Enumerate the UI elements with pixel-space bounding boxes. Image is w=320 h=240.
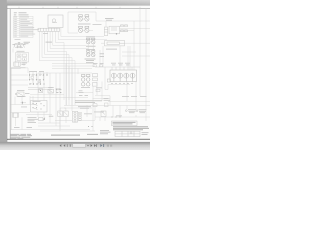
legend table header text bbox=[14, 17, 39, 40]
legend row 7 text bbox=[14, 31, 17, 34]
wires right of heater bbox=[100, 43, 150, 70]
diode symbol w junction bbox=[39, 117, 46, 121]
toolbar next button bbox=[91, 144, 93, 147]
right mid text bbox=[94, 112, 122, 117]
mid-right verticals bbox=[113, 106, 120, 118]
left area tiny text bbox=[18, 95, 26, 98]
main harness connector box bbox=[48, 15, 63, 28]
alternator wires right bbox=[96, 9, 150, 96]
fuse box inner dots bbox=[19, 55, 26, 60]
tail lamp symbol 2 bbox=[136, 110, 138, 112]
dimmer switch links bbox=[56, 88, 60, 92]
heater label bbox=[106, 48, 117, 51]
toolbar first button bbox=[60, 144, 71, 147]
wire code label B bbox=[27, 126, 33, 129]
toolbar page number bbox=[69, 144, 72, 146]
wiper motor label bbox=[81, 86, 90, 89]
title block table bbox=[115, 131, 140, 136]
relay mid cluster bbox=[48, 89, 54, 93]
toolbar last button bbox=[94, 144, 97, 147]
right area wires bbox=[64, 82, 150, 122]
light switch contact row 2 bbox=[29, 79, 30, 80]
legend row 5 text bbox=[14, 26, 17, 29]
ignition block stubs bbox=[95, 67, 140, 70]
vertical connector strip bbox=[72, 111, 77, 122]
drawing frame bottom border bbox=[7, 138, 150, 140]
bottom wire runs bbox=[10, 86, 95, 131]
ignition switch block bbox=[110, 70, 137, 82]
ground bus label bbox=[21, 66, 26, 69]
gauge link wire bbox=[88, 44, 93, 51]
pin column bbox=[79, 112, 82, 120]
junction dot left bbox=[22, 102, 23, 103]
lamp feed wire bbox=[68, 12, 96, 33]
gauge pair 1 caption bbox=[86, 36, 95, 39]
legend table border bbox=[14, 16, 34, 37]
horn component box bbox=[13, 113, 19, 117]
small terminal left of block bbox=[107, 79, 110, 82]
wire dots on bus bbox=[112, 116, 121, 119]
harness fan-out wires bbox=[39, 28, 107, 106]
mid dots pair bbox=[88, 126, 93, 127]
light switch contact links bbox=[28, 72, 52, 89]
relay mid label bbox=[48, 87, 61, 90]
lower cluster label bbox=[78, 106, 91, 108]
legend row 1 text bbox=[14, 18, 17, 21]
toolbar page field bbox=[73, 144, 86, 147]
ignition block labels bbox=[111, 63, 130, 65]
legend row 4 text bbox=[14, 24, 17, 27]
fuse holder dot bbox=[40, 90, 41, 91]
fuel sender label bbox=[105, 18, 114, 20]
wiper motor pair bbox=[81, 75, 90, 87]
toolbar prev button bbox=[63, 144, 65, 147]
tail lamp symbol 1 bbox=[125, 110, 127, 112]
relay labels left of block bbox=[93, 62, 104, 65]
legend header line 2 bbox=[14, 14, 29, 17]
connector pin strip bbox=[38, 28, 60, 31]
toolbar faint icons bbox=[107, 144, 112, 146]
drawing frame left border bbox=[9, 9, 11, 140]
light switch contact row 3 bbox=[29, 83, 30, 84]
mid horizontal wires bbox=[30, 95, 88, 98]
toolbar dash bbox=[87, 144, 88, 147]
mid link wire bbox=[76, 92, 93, 94]
pin column side label bbox=[84, 113, 92, 116]
left small label bbox=[21, 106, 27, 109]
note text below legend bbox=[15, 38, 21, 41]
vertical feed left of block bbox=[104, 67, 106, 90]
gauge pair 1 label bbox=[86, 45, 96, 48]
relay small box pair right bbox=[93, 74, 98, 87]
small label bbox=[49, 115, 54, 118]
title block side text bbox=[142, 132, 149, 135]
junction dot bbox=[44, 118, 46, 120]
center bus wires bbox=[10, 49, 95, 130]
toolbar separator tick bbox=[66, 144, 69, 147]
legend header line 1 bbox=[14, 11, 27, 14]
battery box bbox=[14, 62, 20, 66]
dimmer switch contacts bbox=[56, 88, 62, 93]
sender small text bbox=[93, 23, 102, 26]
bottom-left notes paragraph bbox=[11, 134, 33, 139]
lamp pair caption bbox=[78, 23, 91, 26]
gauge pair 2 label bbox=[85, 59, 96, 61]
oil pressure sender bbox=[104, 27, 107, 36]
dash lamp pair lower bbox=[78, 26, 89, 32]
turn signal switch label bbox=[33, 100, 41, 103]
viewer gray top margin bbox=[0, 0, 150, 6]
left bus wire bbox=[12, 68, 52, 130]
terminal strip small bbox=[121, 25, 128, 32]
mid-right tiny box bbox=[105, 103, 109, 107]
gauge pair 2 bbox=[86, 51, 95, 57]
right small box bbox=[93, 104, 97, 107]
connector marks right of gauges bbox=[100, 53, 105, 56]
aux small box right bbox=[101, 111, 106, 117]
ignition block lower terminals bbox=[111, 83, 132, 84]
toolbar extra buttons bbox=[100, 144, 104, 147]
fuse holder small bbox=[39, 89, 43, 93]
left-of-titleblock labels bbox=[100, 130, 111, 134]
light switch contact row 1 bbox=[29, 74, 48, 84]
legend row 6 text bbox=[14, 28, 17, 31]
pin strip side label bbox=[43, 32, 48, 35]
viewer gray left margin bbox=[0, 0, 7, 143]
bundle wire label bbox=[46, 41, 53, 44]
note text small mid bbox=[79, 91, 84, 93]
fuse box label bbox=[17, 50, 25, 53]
right label near block bbox=[96, 87, 102, 90]
regulator box bbox=[109, 26, 120, 34]
fuse box detail bbox=[16, 53, 29, 63]
flasher unit label bbox=[86, 61, 94, 64]
mid marks row bbox=[79, 94, 88, 97]
title block stamp circle bbox=[130, 132, 132, 134]
lower relay box 2 bbox=[64, 111, 69, 117]
key switch label bbox=[24, 42, 31, 44]
right mid labels bbox=[122, 95, 147, 98]
scanned page background bbox=[0, 0, 150, 150]
junction component left bbox=[21, 101, 27, 105]
ignition key switch pictorial bbox=[12, 42, 26, 48]
starter relay label bbox=[17, 90, 30, 93]
relay tiny boxes top bbox=[93, 65, 103, 67]
turn signal switch box bbox=[31, 101, 48, 113]
lower relay box 1 bbox=[58, 111, 63, 117]
note box text bbox=[113, 122, 136, 124]
page edge shade bbox=[6, 5, 9, 143]
legend row 3 text bbox=[14, 22, 17, 25]
horn label cluster bbox=[28, 117, 39, 122]
starter relay symbol bbox=[15, 92, 24, 97]
battery label bbox=[22, 63, 28, 65]
viewer bottom toolbar separator bbox=[0, 141, 150, 144]
mid-right label small bbox=[104, 98, 111, 100]
regulator terminal dot bbox=[116, 33, 118, 35]
drawing frame top border bbox=[7, 8, 150, 10]
bottom caption text bbox=[51, 134, 98, 136]
bottom-right note box bbox=[112, 121, 138, 126]
lamp cluster label right 1 bbox=[128, 109, 136, 113]
resistor heater box bbox=[105, 41, 125, 46]
turn signal switch dots bbox=[33, 103, 45, 109]
lamp cluster label right 2 bbox=[139, 109, 147, 113]
frame tick marks bbox=[19, 7, 140, 9]
right tiny rect near block bbox=[96, 89, 100, 91]
gauge pair 1 bbox=[86, 38, 95, 44]
wire code label A bbox=[14, 126, 20, 129]
legend row 8 text bbox=[14, 33, 17, 36]
viewer bottom toolbar band bbox=[0, 143, 150, 150]
gauge pair 2 caption bbox=[86, 48, 95, 51]
light switch label bbox=[29, 70, 44, 73]
ground bus bar bbox=[10, 67, 20, 68]
ignition block lower wire bbox=[105, 85, 130, 90]
legend row 2 text bbox=[14, 20, 17, 23]
dense text under note box bbox=[113, 126, 149, 130]
dash lamp pair upper bbox=[78, 15, 89, 21]
legend row 9 text bbox=[14, 35, 17, 38]
wide note row center bbox=[75, 100, 102, 102]
